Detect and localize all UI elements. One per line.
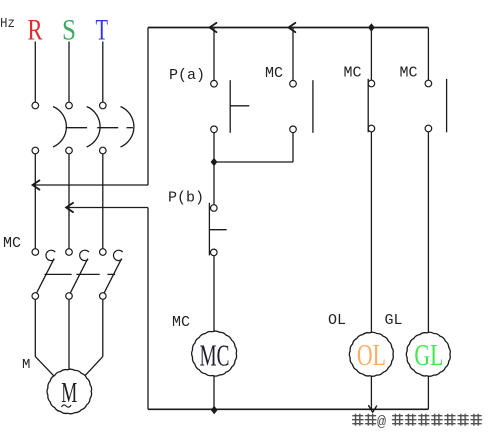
wire bottom bus <box>148 408 428 410</box>
pushbutton P(a) normally open <box>211 80 250 133</box>
wire phase T breaker to contactor <box>102 154 104 249</box>
contact MC normally open for GL <box>425 79 447 132</box>
svg-text:P(a): P(a) <box>169 67 205 84</box>
node junction coil at bottom bus <box>211 406 218 414</box>
wire GL contact to lamp <box>427 132 429 333</box>
wire holding contact to junction <box>214 161 293 163</box>
wire top bus <box>148 27 428 29</box>
wire top bus to MC holding contact <box>292 28 294 81</box>
wire top junction to OL contact <box>370 28 372 81</box>
wire junction to P(b) <box>213 162 215 205</box>
wire OL contact to lamp <box>370 132 372 333</box>
coil MC <box>192 331 237 376</box>
wire phase R breaker to contactor <box>34 154 36 249</box>
node junction at lamp branch on top bus <box>368 23 375 31</box>
wire phase R contactor to motor <box>35 299 54 376</box>
contact MC normally closed for OL <box>368 79 375 132</box>
svg-text:OL: OL <box>328 312 346 329</box>
wire phase S contactor to motor <box>68 299 70 369</box>
wire control feed tap from phase S <box>67 207 148 209</box>
contactor MC main contact pole S <box>66 249 89 300</box>
arrow at MC holding branch on top bus <box>289 23 296 32</box>
wire MC holding contact down <box>292 133 294 163</box>
svg-text:GL: GL <box>385 312 403 329</box>
arrow at phase S tap <box>66 203 73 212</box>
contactor MC main contact pole T <box>100 249 123 300</box>
svg-text:T: T <box>96 14 109 47</box>
wire control feed tap from phase R <box>33 184 148 186</box>
arrow at phase R tap <box>33 180 40 189</box>
contactor linkage line <box>45 273 116 275</box>
wire P(b) to coil <box>213 256 215 332</box>
circuit breaker pole R <box>32 102 66 154</box>
svg-text:MC: MC <box>172 314 190 331</box>
svg-text:P(b): P(b) <box>168 190 204 207</box>
svg-text:MC: MC <box>265 65 283 82</box>
svg-text:MC: MC <box>200 337 230 372</box>
svg-text:M: M <box>22 357 30 373</box>
motor M <box>47 369 92 414</box>
lamp OL <box>349 332 393 376</box>
wire left control riser upper <box>147 28 149 186</box>
wire phase R from label to breaker <box>34 42 36 103</box>
circuit breaker pole S <box>66 102 100 154</box>
wire phase S from label to breaker <box>68 42 70 103</box>
node junction below P(a) <box>211 158 218 166</box>
wire phase T contactor to motor <box>85 299 103 376</box>
wire OL lamp to bottom bus <box>370 376 372 410</box>
svg-text:MC: MC <box>400 65 418 82</box>
wire top bus to P(a) <box>213 28 215 81</box>
watermark 头条@跟我动手学电气 <box>352 414 483 426</box>
wire left control riser lower <box>147 208 149 410</box>
arrow at OL branch bottom bus <box>369 406 377 413</box>
contact MC holding normally open <box>290 80 313 133</box>
svg-text:OL: OL <box>357 337 386 372</box>
arrow at P(a) branch on top bus <box>210 23 217 32</box>
wire coil to bottom bus <box>213 376 215 410</box>
breaker linkage line <box>66 127 133 129</box>
wire phase T from label to breaker <box>102 42 104 103</box>
svg-text:MC: MC <box>3 235 21 252</box>
contactor MC main contact pole R <box>32 249 55 300</box>
wire phase S breaker to contactor <box>68 154 70 249</box>
svg-text:GL: GL <box>414 337 443 372</box>
svg-text:Hz: Hz <box>0 16 15 32</box>
wire GL lamp to bottom bus <box>427 376 429 410</box>
svg-text:MC: MC <box>344 65 362 82</box>
svg-text:M: M <box>61 377 77 409</box>
wire top bus corner to GL contact <box>427 28 429 81</box>
wire P(a) to junction <box>213 133 215 163</box>
svg-text:@: @ <box>377 414 386 431</box>
lamp GL <box>406 332 450 376</box>
circuit breaker pole T <box>100 102 134 154</box>
pushbutton P(b) normally closed <box>209 203 226 256</box>
